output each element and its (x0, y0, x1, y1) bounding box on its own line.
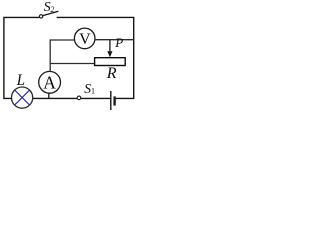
battery short plate (-) (113, 96, 115, 105)
wire left vertical + top-left segment (4, 17, 39, 98)
rheostat wiper stem (109, 40, 111, 52)
wire voltmeter left (50, 39, 74, 41)
switch S1 contact circle (77, 96, 81, 100)
battery long plate (+) (110, 91, 112, 110)
ammeter bottom stub (48, 93, 50, 99)
svg-text:V: V (79, 31, 91, 48)
wire S1 to lamp (33, 97, 77, 99)
wire battery to S1 (81, 97, 110, 99)
svg-text:R: R (106, 65, 117, 82)
wire node to rheostat left (50, 63, 95, 65)
svg-text:2: 2 (50, 5, 54, 14)
wire top-right + right vertical + bottom-right (57, 17, 134, 98)
svg-text:A: A (43, 72, 56, 92)
rheostat wiper arrowhead (107, 51, 112, 57)
ammeter A circle (39, 71, 61, 93)
wire ammeter top to voltmeter level (49, 39, 51, 71)
lamp X diagonal 2 (15, 90, 30, 105)
switch S2 blade (43, 11, 59, 15)
svg-text:1: 1 (91, 86, 95, 95)
svg-text:P: P (114, 35, 123, 50)
wire voltmeter right to right vertical (95, 39, 134, 41)
svg-text:L: L (16, 72, 25, 89)
voltmeter V circle (74, 28, 95, 49)
lamp X diagonal 1 (15, 90, 30, 105)
switch S2 pivot circle (39, 15, 42, 18)
rheostat R body (95, 58, 126, 66)
lamp L circle (12, 87, 33, 108)
